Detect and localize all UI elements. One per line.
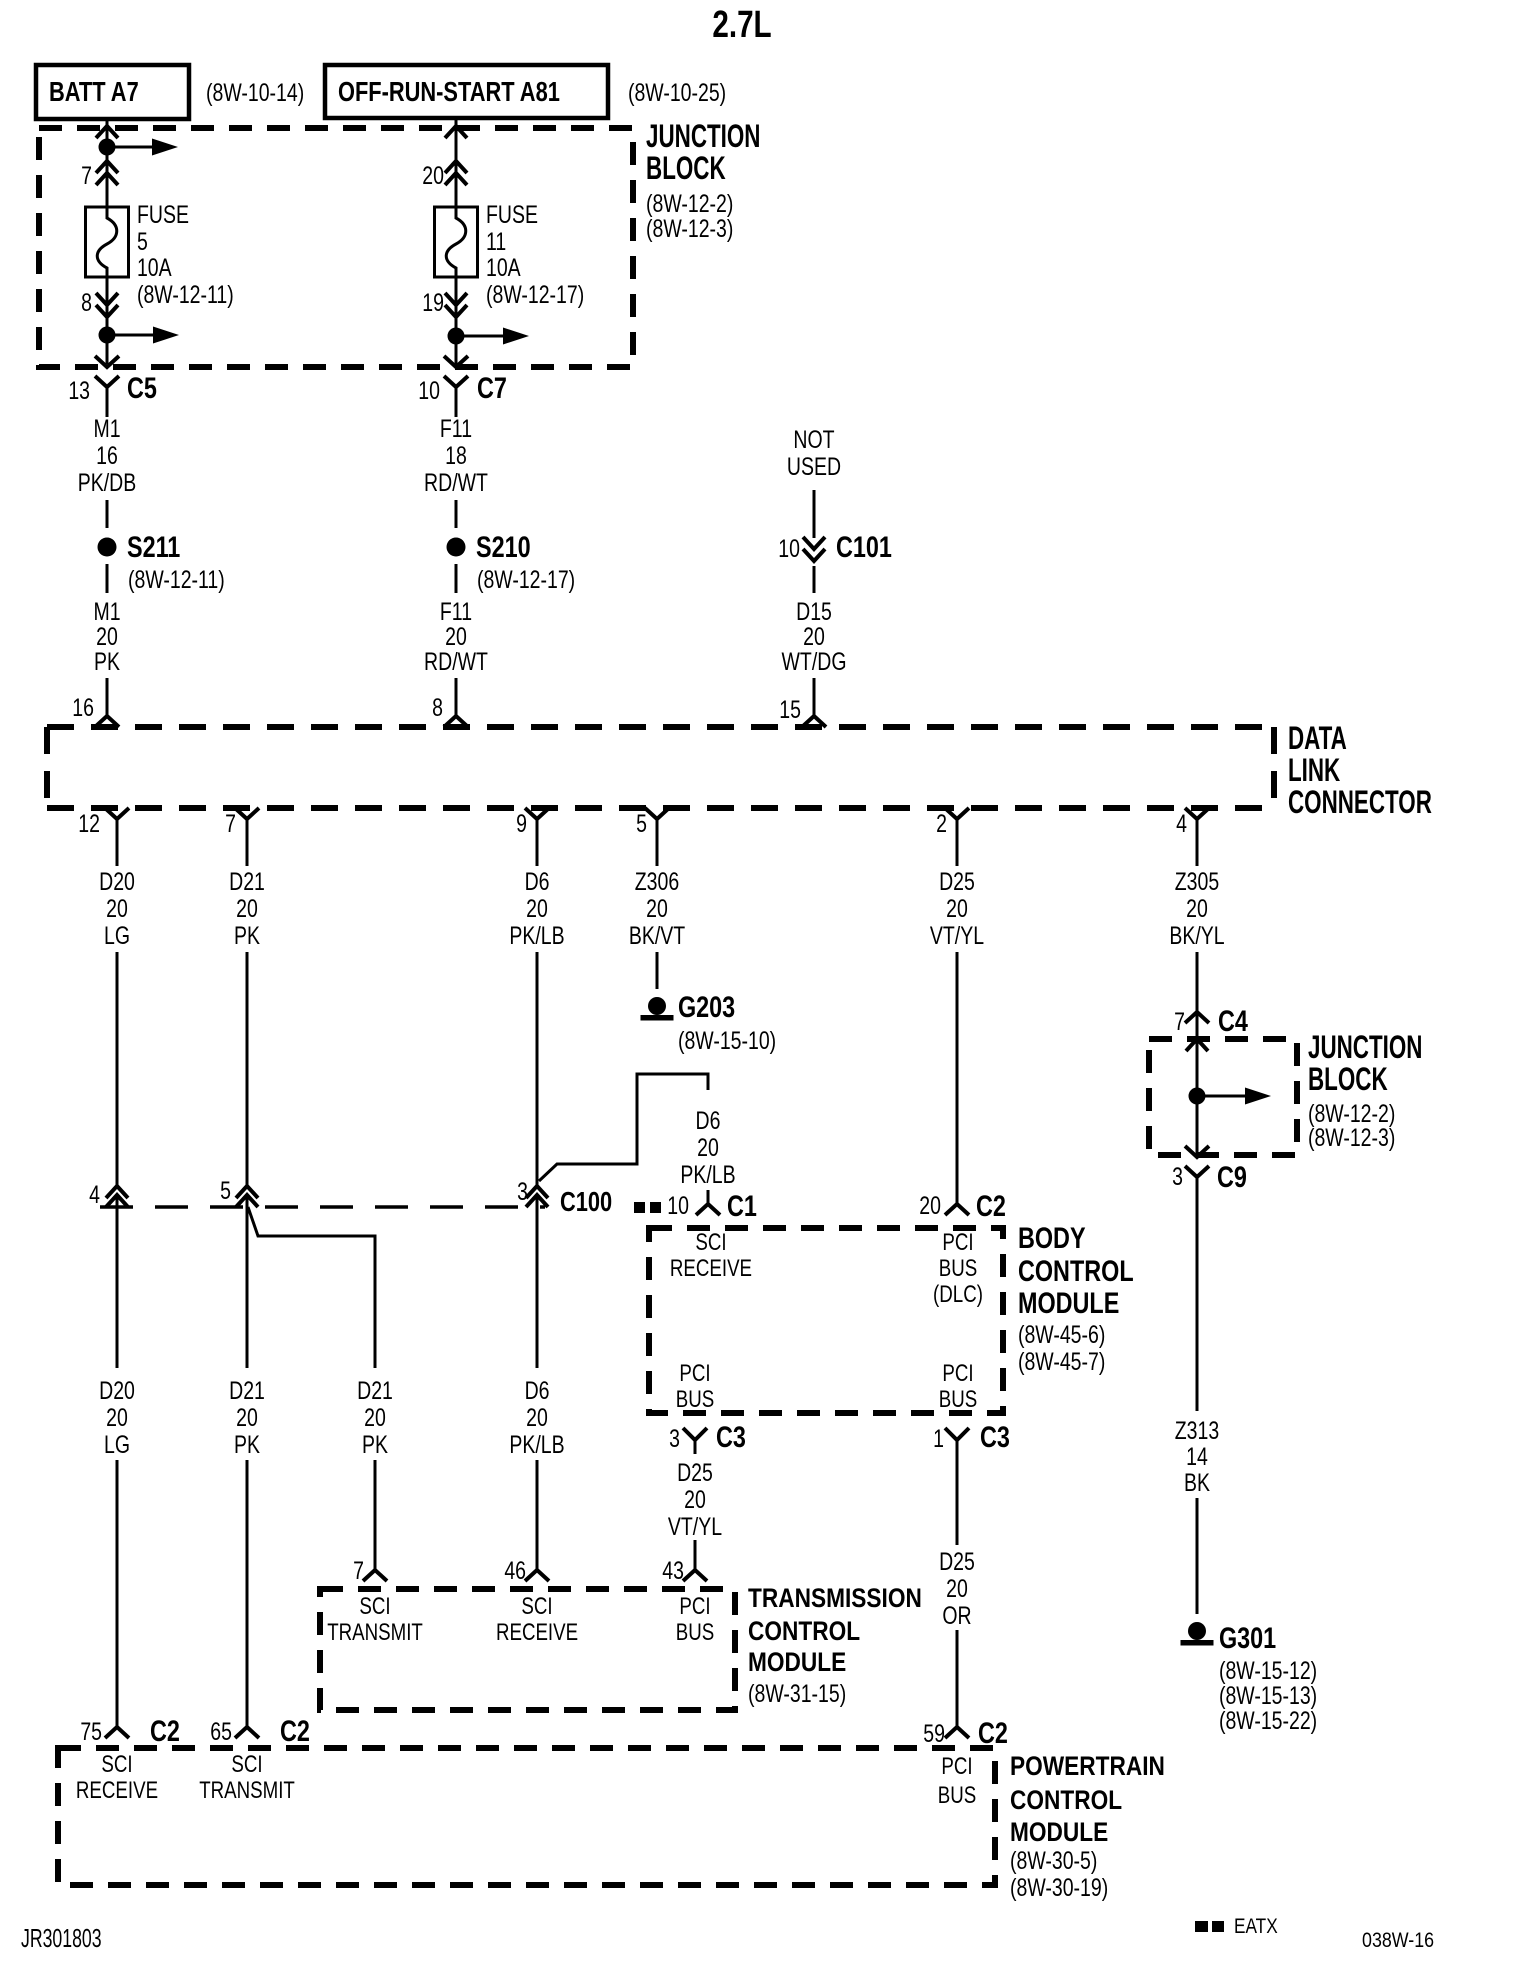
PCM label SCI TRANSMIT: [199, 1751, 295, 1804]
svg-text:TRANSMISSION: TRANSMISSION: [748, 1583, 922, 1613]
svg-text:20: 20: [445, 623, 467, 651]
ground G301: [1181, 1621, 1318, 1734]
ground G203: [641, 990, 777, 1054]
svg-text:20: 20: [106, 1404, 128, 1432]
svg-text:LG: LG: [104, 1431, 130, 1459]
svg-text:20: 20: [96, 623, 118, 651]
svg-text:C1: C1: [727, 1189, 757, 1222]
C100 pin 3: [517, 1178, 548, 1207]
svg-text:8: 8: [81, 289, 92, 317]
svg-text:FUSE: FUSE: [486, 201, 538, 229]
fuse 5: [86, 206, 129, 278]
PCM pin 59: [923, 1716, 1008, 1749]
TCM label PCI BUS: [676, 1593, 714, 1646]
wire label F11 18 RD/WT: [424, 411, 488, 528]
svg-text:RECEIVE: RECEIVE: [76, 1777, 158, 1804]
PCM pin 75: [80, 1714, 180, 1747]
connector C2 BCM pin 20: [919, 1189, 1006, 1222]
svg-text:3: 3: [1172, 1163, 1183, 1191]
wire D20 20 LG upper: [99, 818, 135, 1186]
label NOT USED: [787, 426, 841, 481]
svg-text:C101: C101: [836, 530, 892, 563]
svg-text:2.7L: 2.7L: [712, 4, 771, 46]
svg-text:RD/WT: RD/WT: [424, 648, 488, 676]
svg-text:20: 20: [526, 895, 548, 923]
wire Z305 20 BK/YL: [1169, 818, 1224, 1012]
svg-text:PK: PK: [234, 922, 260, 950]
connector C3 pin 3: [669, 1420, 746, 1454]
junction block 2 internal wire: [1186, 1013, 1208, 1156]
svg-text:2: 2: [936, 810, 947, 838]
svg-text:75: 75: [80, 1718, 102, 1746]
pin 19 double chevron: [445, 293, 467, 317]
svg-text:(8W-10-14): (8W-10-14): [206, 79, 304, 107]
pin 7 label: [81, 162, 92, 190]
wire label F11 20 RD/WT: [424, 564, 488, 716]
svg-text:C7: C7: [477, 371, 507, 404]
wire label D6 20 PK/LB jog: [680, 1107, 735, 1204]
svg-text:SCI: SCI: [101, 1751, 132, 1778]
svg-text:BUS: BUS: [938, 1782, 976, 1809]
wire label D25 20 OR: [939, 1452, 975, 1727]
svg-text:20: 20: [946, 895, 968, 923]
wire label Z313 14 BK: [1175, 1201, 1219, 1614]
svg-text:PK/LB: PK/LB: [509, 1431, 564, 1459]
svg-text:EATX: EATX: [1234, 1916, 1278, 1939]
svg-text:11: 11: [486, 228, 506, 256]
svg-text:D6: D6: [525, 1377, 550, 1405]
svg-text:5: 5: [220, 1177, 231, 1205]
C100 pin 5: [220, 1177, 258, 1207]
svg-text:(8W-45-6): (8W-45-6): [1018, 1321, 1105, 1349]
PCM label PCI BUS: [938, 1753, 976, 1809]
svg-text:SCI: SCI: [231, 1751, 262, 1778]
svg-text:D6: D6: [696, 1107, 721, 1135]
PCM pin 65: [210, 1714, 310, 1747]
fuse 11 labels: [486, 201, 584, 309]
connector C101: [778, 530, 892, 563]
powertrain control module dashed box: [58, 1748, 995, 1885]
wire D20 20 LG lower: [99, 1195, 135, 1727]
svg-text:59: 59: [923, 1720, 945, 1748]
svg-text:VT/YL: VT/YL: [668, 1513, 722, 1541]
svg-text:D21: D21: [229, 1377, 265, 1405]
svg-text:C2: C2: [150, 1714, 180, 1747]
transmission control module label: [748, 1583, 922, 1707]
DLC pin 9: [516, 808, 549, 838]
wire fuse 5 to C5: [106, 277, 109, 364]
connector C100 dashed line: [100, 1205, 545, 1209]
svg-text:20: 20: [946, 1575, 968, 1603]
svg-text:038W-16: 038W-16: [1362, 1929, 1434, 1953]
wire label M1 16 PK/DB: [78, 411, 136, 528]
TCM label SCI RECEIVE: [496, 1593, 578, 1646]
svg-text:F11: F11: [440, 415, 472, 443]
svg-text:43: 43: [662, 1557, 684, 1585]
svg-text:10: 10: [778, 535, 800, 563]
svg-text:USED: USED: [787, 453, 841, 481]
svg-text:PK: PK: [362, 1431, 388, 1459]
junction block 1 dashed box: [39, 128, 633, 367]
splice dot and arrow top col1: [99, 139, 179, 156]
svg-text:BODY: BODY: [1018, 1221, 1086, 1254]
svg-text:19: 19: [422, 289, 444, 317]
svg-text:Z313: Z313: [1175, 1417, 1219, 1445]
svg-text:15: 15: [779, 696, 801, 724]
svg-text:8: 8: [432, 694, 443, 722]
DLC pin 2: [936, 808, 969, 838]
wire label D15 20 WT/DG: [782, 566, 847, 716]
svg-text:4: 4: [89, 1181, 100, 1209]
svg-text:D15: D15: [796, 598, 832, 626]
svg-text:20: 20: [236, 1404, 258, 1432]
svg-text:BUS: BUS: [676, 1619, 714, 1646]
svg-text:PCI: PCI: [942, 1229, 973, 1256]
svg-text:(8W-12-17): (8W-12-17): [477, 566, 575, 594]
junction block 2 dashed box: [1149, 1039, 1297, 1155]
TCM pin 7: [353, 1557, 387, 1585]
splice S210: [447, 530, 576, 593]
wire NOT USED to C101: [813, 490, 816, 538]
wire D21 20 PK lower col2: [229, 1195, 265, 1727]
svg-text:FUSE: FUSE: [137, 201, 189, 229]
wire branch pin5 to TCM pin 7: [248, 1207, 375, 1368]
DLC pin 12: [78, 808, 129, 838]
TCM label SCI TRANSMIT: [327, 1593, 423, 1646]
svg-text:SCI: SCI: [359, 1593, 390, 1620]
wire D25 20 VT/YL upper: [930, 818, 984, 1204]
wire OFF-RUN-START to fuse 11: [455, 118, 458, 207]
svg-text:PK: PK: [94, 648, 120, 676]
pin 8 label: [81, 289, 92, 317]
pin 20 double chevron: [445, 161, 467, 185]
svg-text:7: 7: [1174, 1008, 1185, 1036]
svg-text:C3: C3: [980, 1420, 1010, 1453]
svg-text:9: 9: [516, 810, 527, 838]
svg-text:(8W-30-5): (8W-30-5): [1010, 1847, 1097, 1875]
svg-text:20: 20: [919, 1192, 941, 1220]
DLC pin 7: [225, 808, 259, 838]
fuse 11: [435, 206, 478, 278]
svg-text:(8W-45-7): (8W-45-7): [1018, 1348, 1105, 1376]
svg-text:BLOCK: BLOCK: [646, 150, 726, 186]
svg-text:3: 3: [517, 1178, 528, 1206]
svg-text:LG: LG: [104, 922, 130, 950]
C100 label: [560, 1186, 612, 1217]
svg-text:TRANSMIT: TRANSMIT: [199, 1777, 295, 1804]
svg-text:JUNCTION: JUNCTION: [646, 118, 760, 154]
svg-text:M1: M1: [93, 598, 120, 626]
svg-text:(8W-10-25): (8W-10-25): [628, 79, 726, 107]
label (8W-10-25): [628, 79, 726, 107]
svg-text:(8W-15-22): (8W-15-22): [1219, 1707, 1317, 1735]
svg-text:(8W-12-17): (8W-12-17): [486, 281, 584, 309]
wire D6 20 PK/LB lower: [509, 1195, 564, 1570]
svg-text:(8W-15-12): (8W-15-12): [1219, 1657, 1317, 1685]
connector chevron into junction block col2: [445, 126, 467, 138]
pin 7 double chevron: [96, 161, 118, 185]
svg-text:C2: C2: [978, 1716, 1008, 1749]
powertrain control module label: [1010, 1751, 1165, 1901]
svg-text:D25: D25: [939, 1548, 975, 1576]
svg-text:C9: C9: [1217, 1160, 1247, 1193]
splice dot and arrow bottom col1: [99, 327, 180, 344]
splice S211: [98, 530, 225, 593]
wire label D25 20 VT/YL lower: [668, 1459, 722, 1570]
footer JR301803: [21, 1924, 102, 1953]
svg-text:13: 13: [68, 377, 90, 405]
svg-text:20: 20: [1186, 895, 1208, 923]
footer 038W-16: [1362, 1929, 1434, 1953]
svg-text:WT/DG: WT/DG: [782, 648, 847, 676]
svg-text:20: 20: [684, 1486, 706, 1514]
svg-text:TRANSMIT: TRANSMIT: [327, 1619, 423, 1646]
connector chevron into junction block col1: [96, 126, 118, 138]
svg-text:MODULE: MODULE: [1010, 1817, 1108, 1847]
svg-text:S211: S211: [127, 530, 180, 563]
svg-text:Z305: Z305: [1175, 868, 1219, 896]
svg-text:G203: G203: [678, 990, 735, 1023]
svg-text:BATT A7: BATT A7: [49, 76, 139, 107]
label (8W-10-14): [206, 79, 304, 107]
svg-text:20: 20: [697, 1134, 719, 1162]
svg-text:PCI: PCI: [679, 1360, 710, 1387]
svg-text:14: 14: [1186, 1443, 1208, 1471]
svg-text:20: 20: [106, 895, 128, 923]
data link connector label: [1288, 720, 1432, 820]
pin 20 label: [422, 162, 444, 190]
svg-text:BK/VT: BK/VT: [629, 922, 686, 950]
svg-text:RECEIVE: RECEIVE: [496, 1619, 578, 1646]
svg-text:(8W-12-2): (8W-12-2): [646, 190, 733, 218]
pin 8 double chevron: [96, 293, 118, 317]
BCM label SCI RECEIVE: [670, 1229, 752, 1282]
connector C9 pin 3: [1172, 1146, 1247, 1201]
svg-text:C4: C4: [1218, 1004, 1248, 1037]
svg-text:(8W-12-11): (8W-12-11): [137, 281, 234, 309]
svg-text:16: 16: [96, 442, 118, 470]
transmission control module dashed box: [320, 1589, 735, 1710]
svg-text:MODULE: MODULE: [748, 1647, 846, 1677]
svg-text:PCI: PCI: [679, 1593, 710, 1620]
svg-text:BUS: BUS: [939, 1255, 977, 1282]
svg-text:18: 18: [445, 442, 467, 470]
svg-text:65: 65: [210, 1718, 232, 1746]
svg-text:BUS: BUS: [939, 1386, 977, 1413]
connector C7: [418, 356, 507, 411]
svg-text:S210: S210: [476, 530, 531, 563]
BCM label PCI BUS left: [676, 1360, 714, 1413]
connector C5: [68, 356, 157, 411]
TCM pin 46: [504, 1557, 549, 1585]
svg-text:12: 12: [78, 810, 100, 838]
svg-text:JUNCTION: JUNCTION: [1308, 1029, 1422, 1065]
svg-text:PK/LB: PK/LB: [680, 1161, 735, 1189]
svg-text:D21: D21: [357, 1377, 393, 1405]
svg-text:(8W-12-3): (8W-12-3): [646, 215, 733, 243]
connector C4 pin 7: [1174, 1004, 1248, 1037]
BCM label PCI BUS right: [939, 1360, 977, 1413]
svg-text:7: 7: [225, 810, 236, 838]
wire label M1 20 PK: [93, 564, 120, 716]
svg-text:46: 46: [504, 1557, 526, 1585]
svg-text:BK: BK: [1184, 1469, 1210, 1497]
wire D6 20 PK/LB upper: [509, 818, 564, 1186]
wire D21 20 PK upper: [229, 818, 265, 1186]
svg-text:RECEIVE: RECEIVE: [670, 1255, 752, 1282]
svg-text:7: 7: [81, 162, 92, 190]
svg-text:C5: C5: [127, 371, 157, 404]
svg-text:RD/WT: RD/WT: [424, 469, 488, 497]
svg-text:4: 4: [1176, 810, 1187, 838]
svg-text:20: 20: [236, 895, 258, 923]
svg-text:CONTROL: CONTROL: [1018, 1254, 1134, 1287]
svg-text:DATA: DATA: [1288, 720, 1347, 756]
svg-text:PK/LB: PK/LB: [509, 922, 564, 950]
svg-text:5: 5: [137, 228, 148, 256]
svg-text:D21: D21: [229, 868, 265, 896]
connector C1 pin 10: [667, 1189, 757, 1222]
svg-text:CONTROL: CONTROL: [1010, 1785, 1122, 1815]
junction block 2 dot and arrow: [1189, 1088, 1272, 1105]
svg-text:20: 20: [422, 162, 444, 190]
svg-text:D20: D20: [99, 868, 135, 896]
BCM label PCI BUS (DLC): [933, 1229, 983, 1308]
svg-text:(8W-15-10): (8W-15-10): [678, 1027, 776, 1055]
DLC pin 8: [432, 694, 468, 727]
svg-text:(8W-12-11): (8W-12-11): [128, 566, 225, 594]
wire D21 20 PK lower col3: [357, 1377, 393, 1570]
svg-text:7: 7: [353, 1557, 364, 1585]
svg-text:Z306: Z306: [635, 868, 679, 896]
svg-text:F11: F11: [440, 598, 472, 626]
svg-text:C2: C2: [280, 1714, 310, 1747]
svg-text:10: 10: [667, 1192, 689, 1220]
svg-text:20: 20: [364, 1404, 386, 1432]
svg-text:SCI: SCI: [695, 1229, 726, 1256]
DLC pin 4: [1176, 808, 1209, 838]
svg-text:BUS: BUS: [676, 1386, 714, 1413]
data link connector dashed box: [47, 727, 1274, 808]
svg-text:D6: D6: [525, 868, 550, 896]
svg-text:5: 5: [636, 810, 647, 838]
svg-text:(8W-31-15): (8W-31-15): [748, 1680, 846, 1708]
svg-text:NOT: NOT: [793, 426, 834, 454]
svg-text:OFF-RUN-START A81: OFF-RUN-START A81: [338, 76, 560, 107]
svg-text:16: 16: [72, 694, 94, 722]
svg-text:C100: C100: [560, 1186, 612, 1217]
box BATT A7: [36, 65, 189, 119]
DLC pin 16: [72, 694, 119, 727]
svg-text:D25: D25: [939, 868, 975, 896]
svg-text:20: 20: [803, 623, 825, 651]
junction block 2 label: [1308, 1029, 1422, 1152]
wire D6 branch to C1: [539, 1074, 708, 1181]
svg-text:PK/DB: PK/DB: [78, 469, 136, 497]
svg-text:PK: PK: [234, 1431, 260, 1459]
svg-text:CONNECTOR: CONNECTOR: [1288, 784, 1432, 820]
DLC pin 15: [779, 696, 826, 727]
svg-text:20: 20: [646, 895, 668, 923]
svg-text:MODULE: MODULE: [1018, 1286, 1119, 1319]
pin 19 label: [422, 289, 444, 317]
svg-text:CONTROL: CONTROL: [748, 1616, 860, 1646]
svg-text:BK/YL: BK/YL: [1169, 922, 1224, 950]
svg-text:10A: 10A: [486, 254, 521, 282]
svg-text:D25: D25: [677, 1459, 713, 1487]
PCM label SCI RECEIVE: [76, 1751, 158, 1804]
svg-text:VT/YL: VT/YL: [930, 922, 984, 950]
junction block 1 label: [646, 118, 760, 243]
DLC pin 5: [636, 808, 669, 838]
svg-text:PCI: PCI: [941, 1753, 972, 1780]
svg-text:1: 1: [933, 1425, 944, 1453]
TCM pin 43: [662, 1557, 707, 1585]
svg-text:C3: C3: [716, 1420, 746, 1453]
EATX marker squares at C1: [634, 1202, 661, 1213]
svg-text:(8W-12-3): (8W-12-3): [1308, 1124, 1395, 1152]
footer EATX marker: [1195, 1916, 1278, 1939]
svg-text:10: 10: [418, 377, 440, 405]
wire Z306 20 BK/VT: [629, 818, 686, 989]
C100 pin 4: [89, 1181, 128, 1209]
body control module dashed box: [649, 1228, 1003, 1413]
fuse 5 labels: [137, 201, 234, 309]
svg-text:D20: D20: [99, 1377, 135, 1405]
svg-text:10A: 10A: [137, 254, 172, 282]
svg-text:POWERTRAIN: POWERTRAIN: [1010, 1751, 1165, 1781]
svg-text:M1: M1: [93, 415, 120, 443]
svg-text:(8W-30-19): (8W-30-19): [1010, 1874, 1108, 1902]
svg-text:20: 20: [526, 1404, 548, 1432]
svg-text:LINK: LINK: [1288, 752, 1340, 788]
splice dot and arrow col2: [448, 328, 530, 345]
svg-text:OR: OR: [942, 1602, 971, 1630]
svg-text:JR301803: JR301803: [21, 1924, 102, 1953]
svg-text:SCI: SCI: [521, 1593, 552, 1620]
svg-text:3: 3: [669, 1425, 680, 1453]
wire BATT A7 to fuse 5: [106, 119, 109, 207]
box OFF-RUN-START A81: [325, 65, 608, 118]
svg-text:PCI: PCI: [942, 1360, 973, 1387]
connector C3 pin 1: [933, 1420, 1010, 1454]
title 2.7L: [712, 4, 771, 46]
body control module label: [1018, 1221, 1134, 1375]
svg-text:(8W-15-13): (8W-15-13): [1219, 1682, 1317, 1710]
svg-text:C2: C2: [976, 1189, 1006, 1222]
svg-text:(DLC): (DLC): [933, 1281, 983, 1308]
svg-text:G301: G301: [1219, 1621, 1276, 1654]
svg-text:BLOCK: BLOCK: [1308, 1061, 1388, 1097]
wire fuse 11 to C7: [455, 277, 458, 364]
